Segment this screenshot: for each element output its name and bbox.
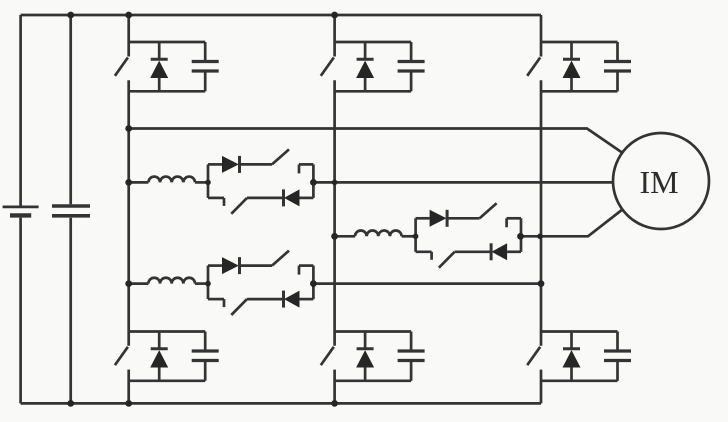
svg-text:IM: IM	[639, 164, 678, 200]
